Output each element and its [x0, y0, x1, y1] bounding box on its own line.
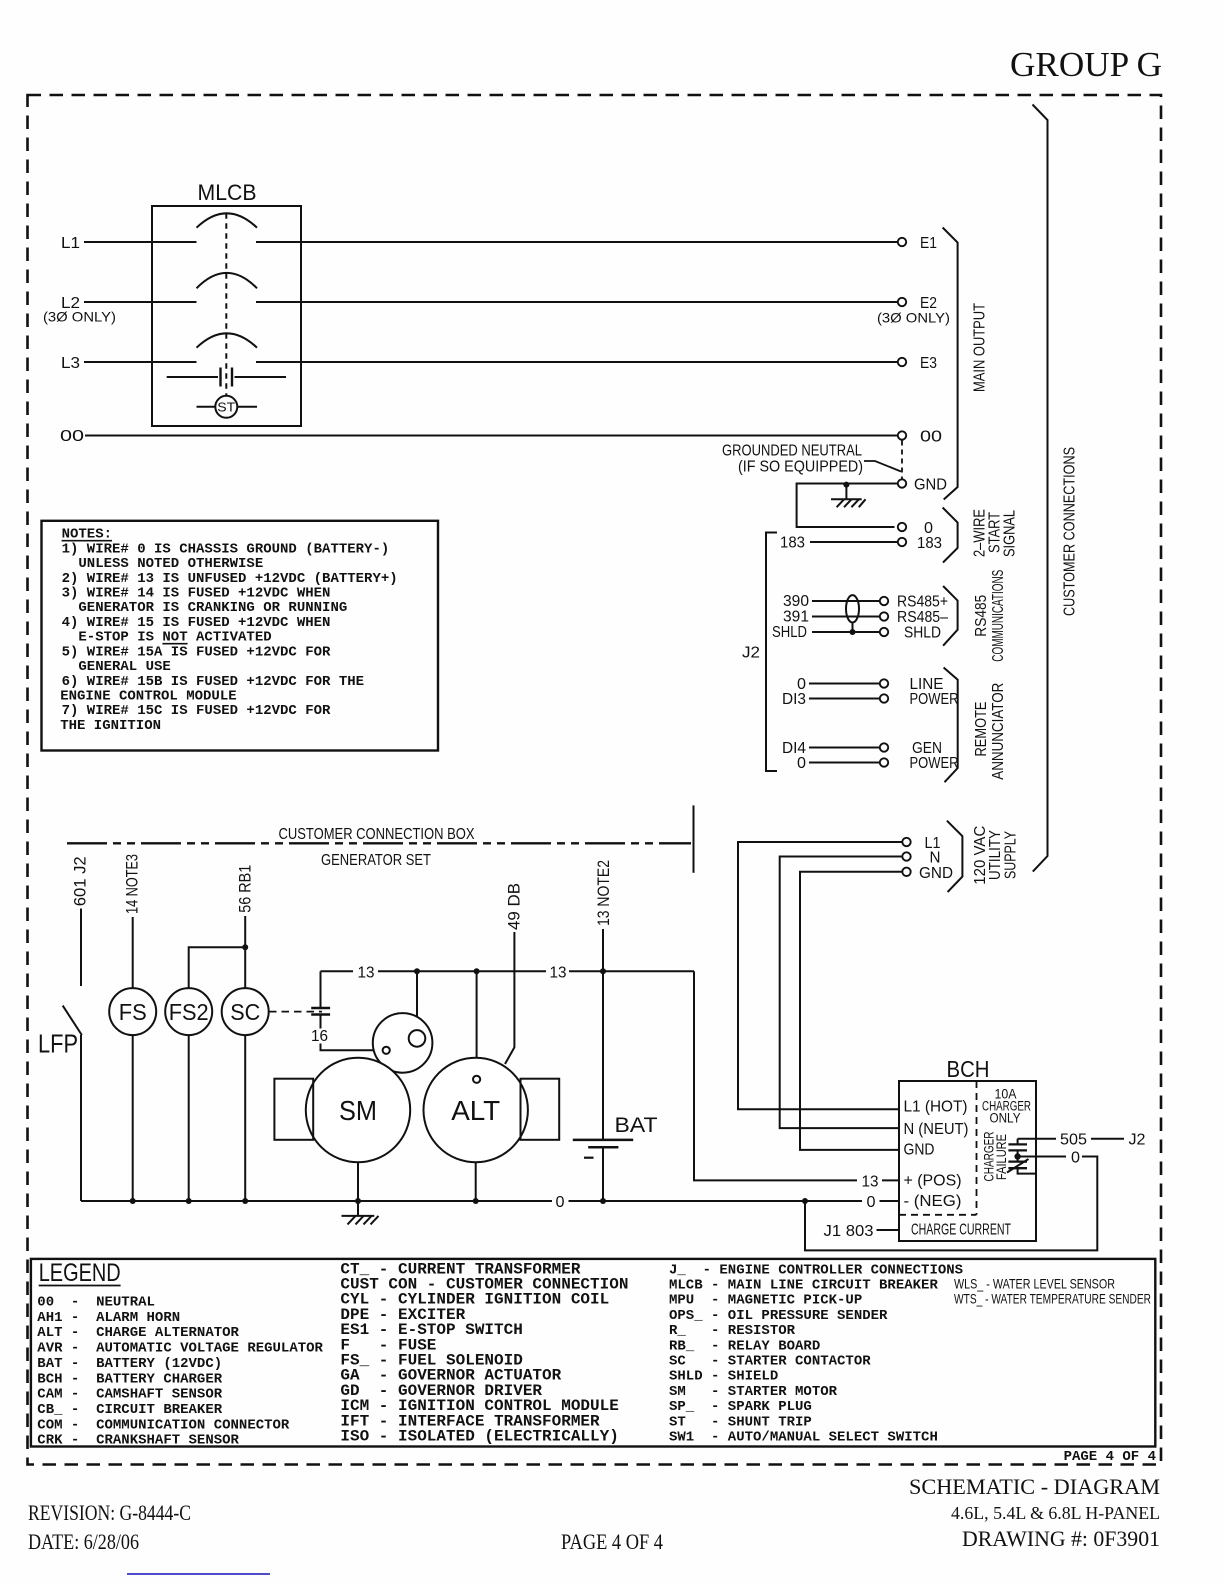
- notes box: [42, 521, 439, 751]
- contact stub top: [1017, 1139, 1019, 1145]
- svg-text:L1: L1: [61, 235, 80, 252]
- junction dot battery bus: [600, 1198, 606, 1204]
- svg-text:ALT - CHARGE ALTERNATOR: ALT - CHARGE ALTERNATOR: [37, 1325, 239, 1341]
- terminal GND: [898, 479, 906, 487]
- svg-text:FAILURE: FAILURE: [994, 1134, 1009, 1180]
- wire battery down: [602, 1147, 604, 1201]
- svg-text:16: 16: [311, 1028, 328, 1045]
- wire 13 to solenoid: [416, 971, 418, 1031]
- terminal SHLD: [880, 628, 888, 636]
- svg-text:GND: GND: [904, 1142, 935, 1159]
- BCH divider dashed vertical: [976, 1081, 978, 1215]
- svg-text:J1 803: J1 803: [824, 1223, 874, 1240]
- solenoid terminal small: [383, 1047, 390, 1054]
- svg-text:13: 13: [862, 1174, 879, 1191]
- svg-text:7) WIRE# 15C IS FUSED +12VDC F: 7) WIRE# 15C IS FUSED +12VDC FOR: [62, 703, 331, 719]
- bus 13: [321, 970, 695, 972]
- terminal N utility: [902, 852, 910, 860]
- svg-text:SUPPLY: SUPPLY: [1002, 831, 1019, 879]
- svg-text:MLCB - MAIN LINE CIRCUIT BREAK: MLCB - MAIN LINE CIRCUIT BREAKER: [669, 1278, 938, 1294]
- solenoid terminal big: [409, 1030, 426, 1047]
- svg-text:ST - SHUNT TRIP: ST - SHUNT TRIP: [669, 1414, 812, 1430]
- svg-text:0: 0: [867, 1194, 876, 1211]
- wire 13 bus to BCH pos: [694, 971, 857, 1180]
- wire L3 to MLCB: [84, 361, 152, 363]
- svg-text:AH1 - ALARM HORN: AH1 - ALARM HORN: [37, 1310, 180, 1326]
- wire 505: [1018, 1138, 1056, 1140]
- fuel solenoid FS: [109, 988, 156, 1035]
- battery plate negative: [588, 1146, 618, 1149]
- junction dot ground: [843, 482, 849, 488]
- svg-text:ONLY: ONLY: [990, 1111, 1021, 1126]
- MLCB ST coil stubs: [197, 406, 216, 408]
- terminal POWER (line): [880, 694, 888, 702]
- charger failure contact NO: [1008, 1143, 1027, 1145]
- wire SC down: [244, 1035, 246, 1201]
- junction dot solenoid 13: [414, 968, 420, 974]
- MLCB pole 2 contact: [152, 301, 197, 303]
- svg-text:SIGNAL: SIGNAL: [1002, 510, 1019, 557]
- svg-text:COMMUNICATIONS: COMMUNICATIONS: [990, 570, 1007, 662]
- terminal E1: [898, 238, 906, 246]
- svg-text:BCH - BATTERY CHARGER: BCH - BATTERY CHARGER: [37, 1371, 222, 1387]
- terminal RS485+: [880, 597, 888, 605]
- svg-text:GROUNDED NEUTRAL: GROUNDED NEUTRAL: [722, 443, 862, 460]
- wire 56 to SC: [244, 916, 246, 988]
- svg-text:ANNUNCIATOR: ANNUNCIATOR: [990, 683, 1007, 780]
- wire 00 neutral: [85, 435, 898, 437]
- terminal E3: [898, 358, 906, 366]
- svg-text:391: 391: [783, 609, 809, 626]
- junction dot ALT 13: [474, 968, 480, 974]
- svg-text:OPS_ - OIL PRESSURE SENDER: OPS_ - OIL PRESSURE SENDER: [669, 1308, 888, 1324]
- junction dot FS bus: [130, 1198, 136, 1204]
- battery plate positive: [573, 1139, 633, 1142]
- twisted pair ellipse: [846, 595, 859, 622]
- MLCB ST coil circle: [215, 396, 237, 418]
- bus 0 negative: [81, 1200, 899, 1202]
- wire E2: [301, 301, 898, 303]
- svg-text:390: 390: [783, 593, 809, 610]
- svg-text:BAT - BATTERY (12VDC): BAT - BATTERY (12VDC): [37, 1356, 222, 1372]
- svg-text:SC - STARTER CONTACTOR: SC - STARTER CONTACTOR: [669, 1354, 871, 1370]
- svg-text:RS485: RS485: [973, 595, 990, 637]
- svg-text:(3Ø ONLY): (3Ø ONLY): [43, 309, 116, 325]
- svg-text:GND: GND: [914, 477, 947, 494]
- svg-text:DRAWING #: 0F3901: DRAWING #: 0F3901: [962, 1526, 1160, 1551]
- breaker MLCB box: [152, 206, 301, 426]
- legend right column: [669, 1262, 963, 1445]
- svg-text:00: 00: [920, 429, 942, 446]
- svg-text:RS485+: RS485+: [897, 594, 948, 611]
- svg-text:183: 183: [917, 535, 942, 552]
- wire 49 to ALT: [505, 932, 514, 1064]
- wire DI3 POWER: [809, 698, 880, 700]
- svg-text:BAT: BAT: [615, 1114, 658, 1137]
- customer connection box boundary dashed: [67, 842, 691, 844]
- ALT field box: [521, 1079, 560, 1140]
- terminal E2: [898, 298, 906, 306]
- svg-text:DI3: DI3: [782, 691, 806, 708]
- svg-text:56 RB1: 56 RB1: [236, 865, 255, 913]
- svg-text:GND: GND: [919, 865, 953, 882]
- MLCB pole 1 contact: [152, 241, 197, 243]
- contact stub middle: [1017, 1150, 1019, 1161]
- svg-text:J2: J2: [1129, 1132, 1146, 1149]
- wire SM down: [357, 1162, 359, 1201]
- legend title underline: [39, 1285, 121, 1287]
- svg-text:GENERAL USE: GENERAL USE: [62, 659, 171, 675]
- svg-text:SM - STARTER MOTOR: SM - STARTER MOTOR: [669, 1384, 838, 1400]
- svg-text:SC: SC: [230, 999, 260, 1025]
- svg-text:- (NEG): - (NEG): [904, 1193, 962, 1210]
- svg-text:SW1 - AUTO/MANUAL SELECT SWIT: SW1 - AUTO/MANUAL SELECT SWITCH: [669, 1430, 938, 1446]
- svg-text:49 DB: 49 DB: [505, 883, 524, 930]
- wire FS down: [132, 1035, 134, 1201]
- blue link underline: [127, 1573, 270, 1575]
- svg-text:CUSTOMER CONNECTION BOX: CUSTOMER CONNECTION BOX: [279, 826, 475, 843]
- bracket 120 VAC: [947, 821, 963, 892]
- svg-text:CHARGE CURRENT: CHARGE CURRENT: [911, 1222, 1011, 1239]
- wire 0 POWER: [809, 762, 880, 764]
- wire L1 to MLCB: [84, 241, 152, 243]
- label 120 VAC UTILITY SUPPLY vertical: [972, 826, 1019, 885]
- svg-text:FS: FS: [119, 999, 147, 1025]
- svg-text:(IF SO EQUIPPED): (IF SO EQUIPPED): [738, 459, 863, 476]
- svg-text:BCH: BCH: [947, 1056, 990, 1082]
- alternator ALT: [424, 1058, 528, 1162]
- BCH divider dashed horizontal: [899, 1214, 977, 1216]
- switch LFP blade: [63, 1006, 82, 1035]
- svg-text:PAGE 4 OF 4: PAGE 4 OF 4: [1064, 1449, 1156, 1465]
- junction dot SHLD: [850, 629, 856, 635]
- label REMOTE ANNUNCIATOR vertical: [973, 683, 1007, 780]
- svg-text:13 NOTE2: 13 NOTE2: [594, 860, 613, 926]
- MLCB pole 3 arc: [197, 333, 258, 347]
- svg-text:J2: J2: [742, 645, 760, 662]
- wire 391 / RS485-: [812, 616, 880, 618]
- notes underline NOT: [162, 643, 187, 645]
- svg-text:REVISION: G-8444-C: REVISION: G-8444-C: [28, 1500, 191, 1525]
- svg-text:0: 0: [797, 755, 806, 772]
- wire E3: [301, 361, 898, 363]
- wire utility N to BCH: [780, 857, 903, 1129]
- leader line: [864, 461, 901, 472]
- wire ALT down: [475, 1162, 477, 1201]
- terminal POWER (gen): [880, 758, 888, 766]
- junction dot SM bus: [355, 1198, 361, 1204]
- ground SM stem: [357, 1201, 359, 1216]
- svg-text:00 - NEUTRAL: 00 - NEUTRAL: [37, 1295, 155, 1311]
- terminal LINE: [880, 679, 888, 687]
- wire 0 loop around BCH: [805, 1157, 1097, 1251]
- svg-text:THE IGNITION: THE IGNITION: [60, 718, 161, 734]
- wire GND to ground: [797, 484, 898, 528]
- svg-text:CAM - CAMSHAFT SENSOR: CAM - CAMSHAFT SENSOR: [37, 1387, 222, 1403]
- svg-text:MPU - MAGNETIC PICK-UP: MPU - MAGNETIC PICK-UP: [669, 1293, 862, 1309]
- wire 13 to battery: [602, 929, 604, 1140]
- terminal RS485-: [880, 612, 888, 620]
- BCH label CHARGER FAILURE vertical: [982, 1131, 1009, 1181]
- wire DI4 GEN: [809, 747, 880, 749]
- wire 601: [80, 909, 82, 987]
- ground SM hatches: [348, 1216, 379, 1225]
- svg-text:WTS_ - WATER TEMPERATURE SENDE: WTS_ - WATER TEMPERATURE SENDER: [954, 1291, 1151, 1307]
- MLCB pole 2 arc: [197, 273, 258, 288]
- ground stem: [845, 485, 847, 500]
- svg-text:E1: E1: [920, 235, 937, 252]
- svg-text:LEGEND: LEGEND: [39, 1259, 121, 1287]
- charger failure contact NC: [1008, 1160, 1027, 1162]
- ALT terminal circle: [473, 1076, 480, 1083]
- contact stub bottom: [1018, 1168, 1036, 1173]
- svg-text:LFP: LFP: [38, 1029, 78, 1059]
- terminal 183: [898, 538, 906, 546]
- svg-text:UNLESS NOTED OTHERWISE: UNLESS NOTED OTHERWISE: [62, 556, 264, 572]
- svg-text:6) WIRE# 15B IS FUSED +12VDC F: 6) WIRE# 15B IS FUSED +12VDC FOR THE: [62, 674, 364, 690]
- MLCB trip linkage dashed: [225, 213, 227, 395]
- svg-text:POWER: POWER: [910, 691, 959, 708]
- wire 0 charger failure: [1021, 1156, 1067, 1158]
- svg-text:GENERATOR SET: GENERATOR SET: [321, 852, 431, 869]
- bracket 2-WIRE START SIGNAL: [943, 508, 958, 563]
- svg-text:SP_ - SPARK PLUG: SP_ - SPARK PLUG: [669, 1399, 812, 1415]
- wire 390 / RS485+: [812, 600, 880, 602]
- svg-text:GROUP G: GROUP G: [1010, 45, 1162, 84]
- terminal GND utility: [902, 868, 910, 876]
- svg-text:CB_ - CIRCUIT BREAKER: CB_ - CIRCUIT BREAKER: [37, 1402, 222, 1418]
- svg-text:L1 (HOT): L1 (HOT): [904, 1099, 968, 1116]
- svg-text:PAGE 4 OF 4: PAGE 4 OF 4: [561, 1529, 663, 1554]
- wire 803 to BCH: [877, 1229, 900, 1231]
- fuel solenoid FS2: [165, 988, 212, 1035]
- svg-text:SHLD: SHLD: [904, 625, 941, 642]
- wire FS2 tee: [189, 947, 246, 988]
- svg-text:13: 13: [550, 965, 567, 982]
- svg-text:1) WIRE# 0 IS CHASSIS GROUND (: 1) WIRE# 0 IS CHASSIS GROUND (BATTERY-): [62, 541, 390, 557]
- svg-text:601 J2: 601 J2: [71, 856, 90, 906]
- notes underline NOTES:: [62, 540, 112, 542]
- svg-text:SHLD: SHLD: [772, 624, 807, 641]
- wire 505 to J2: [1091, 1138, 1124, 1140]
- svg-text:13: 13: [358, 965, 375, 982]
- shield drain stub: [852, 623, 854, 633]
- ground hatches: [837, 499, 845, 507]
- wire utility L1 to BCH: [738, 842, 902, 1109]
- svg-text:DATE: 6/28/06: DATE: 6/28/06: [28, 1529, 139, 1554]
- terminal L1 utility: [902, 838, 910, 846]
- legend middle column: [340, 1260, 628, 1445]
- wire 14 to FS: [132, 917, 134, 988]
- MLCB pole 3 contact: [152, 361, 197, 363]
- svg-text:AVR - AUTOMATIC VOLTAGE REGUL: AVR - AUTOMATIC VOLTAGE REGULATOR: [37, 1341, 323, 1357]
- svg-text:4.6L, 5.4L & 6.8L H-PANEL: 4.6L, 5.4L & 6.8L H-PANEL: [951, 1503, 1160, 1523]
- svg-text:ISO - ISOLATED (ELECTRICALLY): ISO - ISOLATED (ELECTRICALLY): [340, 1428, 618, 1446]
- junction dot charger failure: [1014, 1153, 1020, 1159]
- terminal GEN: [880, 743, 888, 751]
- starter motor SM: [306, 1058, 410, 1162]
- wire E1: [301, 241, 898, 243]
- svg-text:CUSTOMER CONNECTIONS: CUSTOMER CONNECTIONS: [1062, 447, 1079, 616]
- bracket RS485: [943, 586, 958, 646]
- svg-text:ENGINE CONTROL MODULE: ENGINE CONTROL MODULE: [60, 689, 236, 705]
- legend left column: [37, 1295, 323, 1449]
- battery minus sign: [584, 1157, 594, 1159]
- svg-text:0: 0: [556, 1194, 565, 1211]
- BCH label 10A CHARGER ONLY: [982, 1087, 1031, 1126]
- svg-text:183: 183: [780, 535, 805, 552]
- svg-text:N (NEUT): N (NEUT): [904, 1121, 969, 1138]
- ground bar: [831, 498, 862, 500]
- wire 13 label to BCH: [882, 1179, 899, 1181]
- svg-text:MAIN OUTPUT: MAIN OUTPUT: [972, 303, 989, 392]
- svg-text:L3: L3: [61, 355, 80, 372]
- junction dot FS2 bus: [186, 1198, 192, 1204]
- svg-text:0: 0: [1071, 1150, 1080, 1167]
- wire utility GND to BCH: [800, 872, 902, 1150]
- svg-text:J_ - ENGINE CONTROLLER CONNEC: J_ - ENGINE CONTROLLER CONNECTIONS: [669, 1262, 963, 1278]
- wire LFP down: [80, 1035, 82, 1201]
- svg-text:4) WIRE# 15 IS FUSED +12VDC WH: 4) WIRE# 15 IS FUSED +12VDC WHEN: [62, 615, 331, 631]
- svg-text:+ (POS): + (POS): [904, 1173, 962, 1190]
- svg-text:505: 505: [1060, 1132, 1087, 1149]
- dashed link SC to contact: [269, 1011, 322, 1013]
- wire L2 to MLCB: [84, 301, 152, 303]
- terminal 0 (2-wire start): [898, 523, 906, 531]
- SM brush box: [274, 1079, 313, 1140]
- svg-text:CRK - CRANKSHAFT SENSOR: CRK - CRANKSHAFT SENSOR: [37, 1433, 239, 1449]
- svg-text:WLS_ - WATER LEVEL SENSOR: WLS_ - WATER LEVEL SENSOR: [954, 1276, 1115, 1292]
- svg-text:RS485–: RS485–: [897, 609, 948, 626]
- svg-text:SCHEMATIC - DIAGRAM: SCHEMATIC - DIAGRAM: [909, 1474, 1160, 1499]
- terminal 00: [898, 431, 906, 439]
- wire 16 from contact: [320, 1015, 322, 1029]
- wire 13 to ALT terminal: [476, 971, 478, 1075]
- battery charger BCH box: [899, 1081, 1036, 1241]
- bracket MAIN OUTPUT: [943, 228, 958, 500]
- wire 13 stub to contact: [320, 971, 322, 1008]
- svg-text:COM - COMMUNICATION CONNECTOR: COM - COMMUNICATION CONNECTOR: [37, 1417, 290, 1433]
- junction dot SC tee: [242, 944, 248, 950]
- wire 0 LINE: [809, 683, 880, 685]
- ground SM bar: [342, 1215, 375, 1217]
- label 2-WIRE START SIGNAL vertical: [972, 509, 1019, 557]
- svg-text:14 NOTE3: 14 NOTE3: [123, 854, 142, 914]
- svg-text:MLCB: MLCB: [198, 180, 257, 205]
- junction dot BAT 13: [600, 968, 606, 974]
- SC contact plates: [311, 1007, 330, 1009]
- wire 16 to pinion: [321, 1044, 383, 1051]
- legend box: [31, 1259, 1155, 1447]
- svg-text:2) WIRE# 13 IS UNFUSED +12VDC: 2) WIRE# 13 IS UNFUSED +12VDC (BATTERY+): [62, 571, 398, 587]
- svg-text:REMOTE: REMOTE: [973, 702, 990, 757]
- wire FS2 down: [188, 1035, 190, 1201]
- svg-text:GENERATOR IS CRANKING OR RUNNI: GENERATOR IS CRANKING OR RUNNING: [62, 600, 348, 616]
- contact NC slash: [1007, 1159, 1029, 1173]
- svg-text:E3: E3: [920, 355, 937, 372]
- svg-text:R_ - RESISTOR: R_ - RESISTOR: [669, 1323, 796, 1339]
- svg-text:FS2: FS2: [169, 999, 209, 1025]
- svg-text:3) WIRE# 14 IS FUSED +12VDC WH: 3) WIRE# 14 IS FUSED +12VDC WHEN: [62, 586, 331, 602]
- starter contactor SC: [222, 988, 269, 1035]
- junction dot SC bus: [242, 1198, 248, 1204]
- svg-text:POWER: POWER: [910, 755, 959, 772]
- starter solenoid body: [373, 1013, 433, 1073]
- svg-text:SM: SM: [339, 1095, 377, 1126]
- svg-text:SHLD - SHIELD: SHLD - SHIELD: [669, 1369, 778, 1385]
- bracket CUSTOMER CONNECTIONS: [1033, 105, 1048, 872]
- wire 183: [810, 541, 898, 543]
- svg-text:ST: ST: [217, 400, 235, 415]
- wire SHLD: [812, 631, 880, 633]
- svg-text:(3Ø ONLY): (3Ø ONLY): [877, 310, 950, 326]
- connector J2 bracket: [766, 533, 777, 772]
- dashed neutral-ground link: [901, 441, 903, 479]
- bracket REMOTE ANNUNCIATOR: [944, 668, 958, 783]
- notes text: [60, 527, 397, 734]
- MLCB shunt trip contact: [167, 376, 218, 378]
- svg-text:00: 00: [60, 428, 84, 445]
- svg-text:RB_ - RELAY BOARD: RB_ - RELAY BOARD: [669, 1338, 820, 1354]
- junction dot ALT bus: [473, 1198, 479, 1204]
- junction dot charge loop: [802, 1198, 808, 1204]
- boundary end partition: [693, 805, 695, 872]
- svg-text:ALT: ALT: [451, 1095, 500, 1126]
- svg-text:5) WIRE# 15A IS FUSED +12VDC F: 5) WIRE# 15A IS FUSED +12VDC FOR: [62, 644, 331, 660]
- label RS485 COMMUNICATIONS vertical: [973, 570, 1007, 662]
- MLCB pole 1 arc: [197, 213, 258, 227]
